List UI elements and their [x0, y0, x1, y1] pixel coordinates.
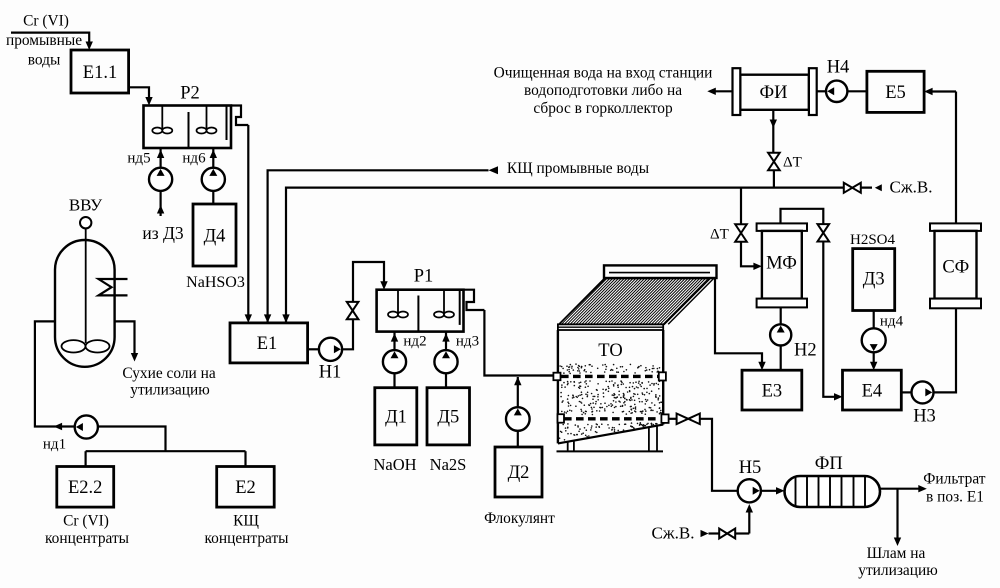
svg-text:нд5: нд5 — [127, 151, 150, 167]
wire FI drain — [770, 110, 777, 153]
wire KShch wash water line — [264, 166, 498, 323]
svg-text:нд4: нд4 — [880, 314, 904, 330]
svg-text:в поз. Е1: в поз. Е1 — [926, 489, 984, 506]
flow arrow flocculant junction — [514, 377, 521, 386]
reactor P2 overflow weir — [227, 106, 249, 141]
label NaOH — [373, 455, 416, 474]
svg-text:Флокулянт: Флокулянт — [484, 510, 555, 527]
label dT-2 — [710, 227, 729, 243]
pump H3 — [901, 381, 936, 426]
svg-text:Е1.1: Е1.1 — [83, 63, 117, 83]
reactor P1 tank — [377, 290, 464, 332]
settler TO stipple — [559, 363, 663, 440]
label P2 — [180, 84, 200, 104]
label ND6 — [182, 151, 206, 167]
svg-text:ФИ: ФИ — [760, 83, 788, 103]
label NaHSO3 — [186, 274, 245, 291]
svg-text:Р2: Р2 — [180, 84, 200, 104]
evaporator VVU shaft — [85, 228, 87, 343]
valve dT-2 — [735, 224, 747, 241]
svg-text:ΔТ: ΔТ — [783, 155, 802, 171]
svg-text:NaHSO3: NaHSO3 — [186, 274, 245, 291]
label H2SO4 — [850, 232, 896, 248]
stream label compressed air top — [890, 178, 933, 197]
label TO — [598, 341, 622, 361]
settler TO lamella plate 1 (dashed) — [553, 372, 665, 380]
svg-text:Е1: Е1 — [257, 334, 278, 354]
stream label filtrate — [923, 471, 986, 506]
pump H5 — [738, 479, 761, 502]
stream label treated water — [494, 64, 713, 117]
svg-text:Н4: Н4 — [827, 58, 850, 78]
svg-text:Д4: Д4 — [204, 227, 226, 247]
svg-text:Д2: Д2 — [508, 463, 530, 483]
svg-text:утилизацию: утилизацию — [858, 562, 937, 579]
svg-text:концентраты: концентраты — [204, 530, 288, 547]
wire H1 to P1 via valve — [342, 262, 388, 349]
tank D5 — [427, 388, 470, 445]
stream label from D3 — [142, 223, 184, 243]
label ND4 — [880, 314, 904, 330]
wire VVU right outlet to dry salts — [115, 321, 139, 361]
svg-text:нд1: нд1 — [43, 437, 66, 453]
pump H2 — [770, 307, 817, 370]
label FP — [815, 454, 843, 474]
svg-text:Cr (VI): Cr (VI) — [23, 13, 69, 30]
svg-text:нд2: нд2 — [403, 334, 426, 350]
stream label compressed air bottom — [652, 524, 695, 543]
svg-text:Н1: Н1 — [319, 363, 342, 383]
reactor P2 tank — [144, 106, 232, 149]
svg-text:Е3: Е3 — [762, 381, 783, 401]
settler TO legs — [557, 426, 664, 451]
wire SF to E5 — [924, 88, 956, 224]
svg-text:Е2.2: Е2.2 — [68, 478, 102, 498]
label VVU — [69, 196, 103, 215]
agitator in P2 left — [152, 106, 172, 134]
wire ND5 suction from D3 — [157, 191, 164, 216]
pump ND5 — [149, 148, 172, 191]
svg-text:Очищенная вода на вход станции: Очищенная вода на вход станции — [494, 64, 713, 81]
stream label Cr(VI) wash waters — [6, 13, 82, 69]
valve on compressed air line — [844, 183, 861, 193]
settler TO lamella block — [559, 279, 714, 325]
tank D4 — [193, 204, 236, 266]
tank D1 — [375, 388, 417, 445]
svg-text:нд6: нд6 — [182, 151, 206, 167]
svg-text:водоподготовки либо на: водоподготовки либо на — [524, 82, 682, 99]
svg-text:Д5: Д5 — [437, 408, 459, 428]
tank E1 — [230, 323, 308, 363]
svg-text:КЩ промывные воды: КЩ промывные воды — [507, 160, 649, 177]
tank D3 — [853, 249, 895, 311]
label ND2 — [403, 334, 426, 350]
pump ND3 — [434, 332, 457, 374]
wire FI outlet — [707, 88, 732, 95]
wire VVU left outlet down — [35, 321, 75, 426]
svg-text:ФП: ФП — [815, 454, 843, 474]
agitator in P1 left — [388, 290, 408, 318]
svg-text:Cr (VI): Cr (VI) — [63, 513, 109, 530]
label P1 — [414, 267, 434, 287]
svg-text:Е4: Е4 — [862, 381, 883, 401]
svg-text:Е5: Е5 — [885, 83, 906, 103]
wire MF backwash line — [781, 209, 824, 225]
wire flocculant riser — [517, 377, 519, 408]
settler TO top band — [558, 324, 663, 330]
svg-text:ΔТ: ΔТ — [710, 227, 729, 243]
label H5 — [739, 458, 762, 478]
reactor P1 partition — [417, 296, 419, 332]
valve dT-1 — [768, 153, 802, 171]
valve before P1 — [347, 302, 359, 319]
stream label sludge — [858, 545, 937, 579]
wire TO sludge outlet — [669, 418, 677, 420]
wire ND6 suction from D4 — [212, 191, 214, 204]
label flocculant — [484, 510, 555, 527]
svg-text:Р1: Р1 — [414, 267, 434, 287]
label ND1 — [43, 437, 66, 453]
svg-text:утилизацию: утилизацию — [130, 382, 209, 399]
svg-text:нд3: нд3 — [456, 334, 479, 350]
svg-text:воды: воды — [28, 52, 61, 69]
label Na2S — [430, 455, 467, 474]
svg-text:промывные: промывные — [6, 32, 82, 49]
svg-text:МФ: МФ — [766, 254, 797, 274]
wire compressed air line to E1 — [282, 188, 872, 323]
svg-text:Н3: Н3 — [913, 407, 936, 427]
tank E4 — [843, 370, 902, 410]
tank E2 — [217, 467, 275, 508]
wire air line branch to dT-2 — [740, 188, 742, 225]
wire sludge valve to H5 — [700, 419, 738, 491]
valve compressed air bottom — [719, 529, 735, 539]
wire dT-2 to MF — [741, 242, 762, 270]
label H4 — [827, 58, 850, 78]
wire E1.1 to P2 — [129, 87, 153, 105]
svg-text:из Д3: из Д3 — [142, 223, 184, 243]
valve TO sludge outlet — [677, 414, 700, 425]
svg-text:концентраты: концентраты — [45, 530, 129, 547]
pump D2-dosing — [506, 407, 530, 431]
wire ND2 suction — [393, 373, 395, 387]
evaporator VVU heater coil — [99, 279, 128, 295]
settler TO sloped bottom — [558, 425, 663, 444]
agitator in P2 right — [197, 106, 217, 134]
label ND3 — [456, 334, 479, 350]
evaporator VVU vessel — [55, 240, 115, 367]
svg-text:Шлам на: Шлам на — [867, 545, 926, 562]
evaporator VVU impeller — [62, 340, 110, 352]
svg-text:ТО: ТО — [598, 341, 622, 361]
stream label KShch wash waters — [507, 160, 649, 177]
svg-text:Д3: Д3 — [863, 270, 885, 290]
svg-text:Na2S: Na2S — [430, 455, 467, 474]
wire ND1 suction header — [86, 427, 246, 467]
flow arrow compressed air top — [875, 184, 882, 191]
tank E5 — [867, 71, 924, 112]
filter SF — [930, 223, 981, 308]
wire FP sludge outlet — [894, 489, 901, 546]
wire P1 overflow to settler — [484, 310, 553, 376]
pump ND1 — [75, 415, 98, 438]
wire P2 overflow to E1 — [245, 125, 252, 323]
svg-text:NaOH: NaOH — [373, 455, 416, 474]
pump ND2 — [383, 332, 406, 374]
tank E3 — [742, 370, 802, 410]
flow arrow to VVU — [54, 423, 63, 430]
svg-text:СФ: СФ — [942, 258, 969, 278]
wire D2 suction — [517, 431, 519, 447]
wire compressed air to H5 — [701, 504, 754, 537]
stream label dry salts — [122, 365, 216, 399]
tank D2 — [495, 447, 542, 497]
svg-text:КЩ: КЩ — [233, 513, 259, 530]
label Cr(VI) concentrates — [45, 513, 129, 548]
valve MF backwash — [818, 224, 830, 241]
wire backwash valve to E4 — [823, 242, 842, 401]
svg-text:Сж.В.: Сж.В. — [652, 524, 695, 543]
pump H4 — [817, 81, 867, 102]
agitator in P1 right — [434, 290, 454, 318]
settler TO body — [558, 330, 663, 443]
svg-text:Фильтрат: Фильтрат — [923, 471, 986, 488]
pump H1 — [308, 338, 343, 383]
filter press FP — [785, 476, 881, 507]
settler TO cover — [604, 265, 717, 278]
svg-text:сброс в горколлектор: сброс в горколлектор — [533, 100, 673, 117]
svg-text:ВВУ: ВВУ — [69, 196, 103, 215]
svg-text:Сухие соли на: Сухие соли на — [122, 365, 216, 382]
svg-text:Н2: Н2 — [794, 341, 817, 361]
evaporator VVU drive — [80, 217, 91, 228]
pump ND4 — [862, 311, 886, 353]
wire Cr(VI) inlet to E1.1 — [11, 33, 93, 50]
settler TO lamella plate 2 (dashed) — [558, 414, 669, 423]
svg-text:H2SO4: H2SO4 — [850, 232, 896, 248]
svg-text:Н5: Н5 — [739, 458, 762, 478]
wire H5 to FP — [761, 487, 785, 494]
svg-text:Сж.В.: Сж.В. — [890, 178, 933, 197]
filter MF — [757, 223, 807, 307]
pump ND6 — [202, 148, 225, 191]
wire ND3 suction — [445, 373, 447, 387]
label ND5 — [127, 151, 150, 167]
wire FP filtrate outlet — [880, 485, 927, 492]
label KShch concentrates — [204, 513, 288, 548]
wire TO overflow to E3 — [715, 278, 766, 370]
svg-text:Д1: Д1 — [385, 408, 407, 428]
wire ND4 to E4 — [870, 352, 877, 370]
svg-text:Е2: Е2 — [235, 478, 256, 498]
tank E2.2 — [57, 467, 114, 508]
wire H3 to SF — [934, 308, 957, 392]
wire dT-1 to air line — [773, 170, 775, 187]
reactor P1 overflow weir — [460, 290, 485, 325]
heat exchanger FI — [733, 68, 817, 115]
vessel E1.1 — [71, 50, 129, 93]
settler TO inlet wire — [540, 374, 553, 376]
reactor P2 partition — [188, 112, 190, 148]
